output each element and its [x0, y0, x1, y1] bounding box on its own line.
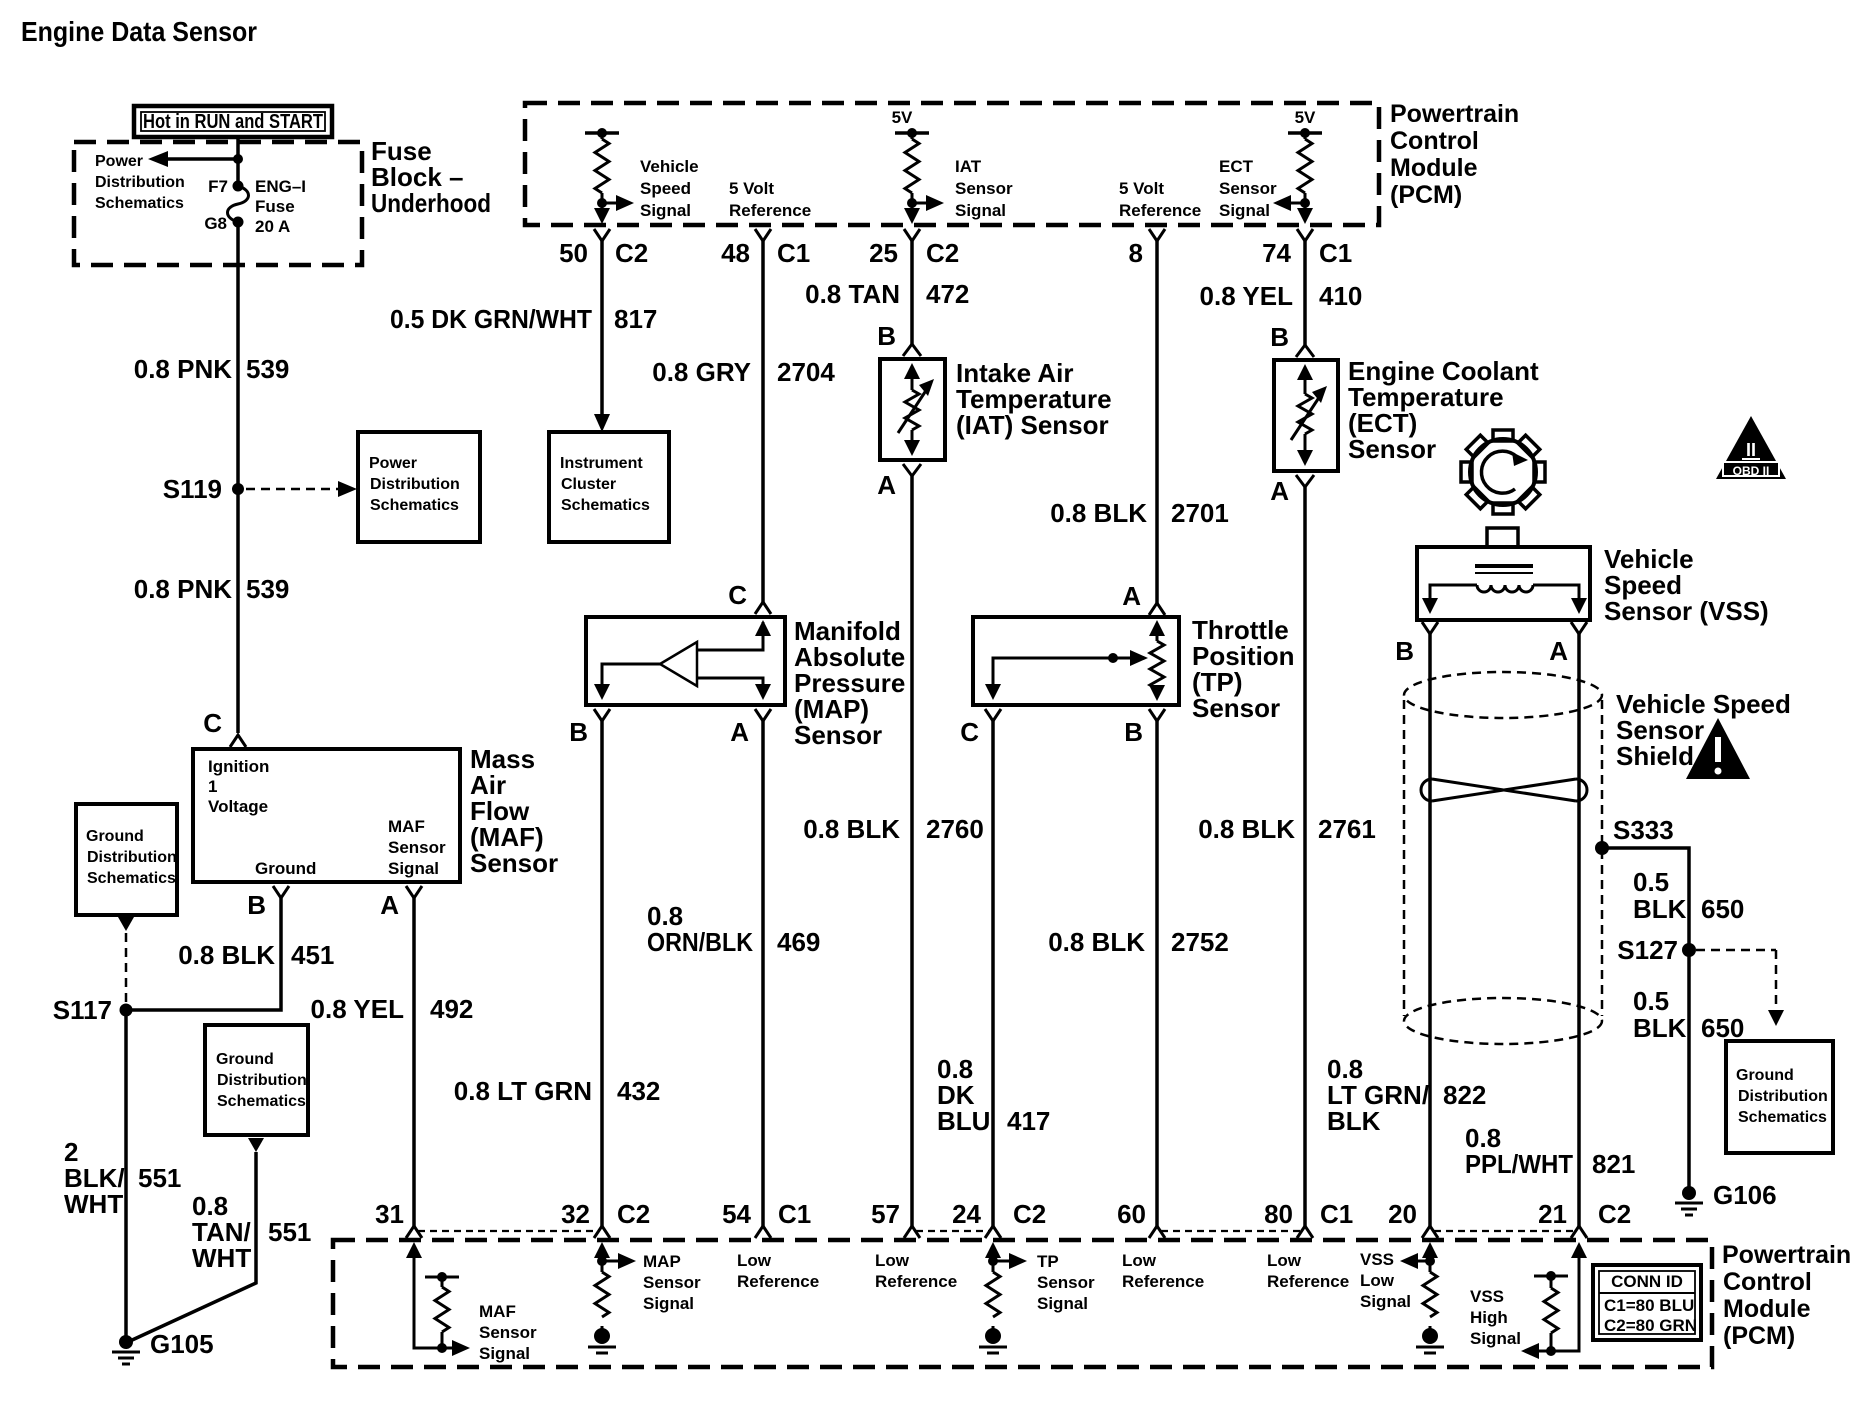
VSS stem	[1487, 528, 1518, 547]
wire 0.5 DK GRN/WHT 817 from pin 50 to instrument cluster	[594, 241, 610, 432]
svg-text:539: 539	[246, 574, 289, 604]
svg-text:OBD II: OBD II	[1733, 464, 1770, 478]
wire 0.8 YEL 492 from MAF pin A to pin 31	[412, 898, 416, 1226]
ground G105	[112, 1329, 214, 1364]
svg-text:A: A	[877, 470, 896, 500]
svg-text:5V: 5V	[1295, 108, 1316, 127]
node G8 fuse terminal	[233, 217, 244, 228]
wire MAP sensor signal inside PCM (pin 32)	[594, 1242, 636, 1272]
pin C connector at TP sensor	[960, 709, 1001, 747]
box VSS Vehicle Speed Sensor	[1417, 547, 1590, 620]
svg-text:A: A	[1549, 636, 1568, 666]
PCM top dashed box Powertrain Control Module	[525, 103, 1379, 225]
pin 48 C1 connector	[721, 229, 810, 268]
pin B connector at VSS	[1395, 622, 1438, 666]
pin A connector at MAF sensor	[380, 886, 422, 920]
svg-text:B: B	[1270, 322, 1289, 352]
resistor MAP sensor signal load with ground (PCM internal)	[588, 1272, 616, 1353]
node splice S119	[232, 483, 244, 495]
svg-text:A: A	[1122, 581, 1141, 611]
svg-text:817: 817	[614, 304, 657, 334]
wire low reference from IAT pin A to pin 57	[910, 476, 914, 1226]
pin 60 connector	[1117, 1199, 1165, 1238]
svg-text:822: 822	[1443, 1080, 1486, 1110]
reluctor gear icon above VSS	[1461, 430, 1545, 514]
svg-text:472: 472	[926, 279, 969, 309]
PCM bottom dashed box Powertrain Control Module	[333, 1240, 1712, 1367]
pin 21 C2 connector	[1538, 1199, 1631, 1238]
svg-text:0.5 DK GRN/WHT: 0.5 DK GRN/WHT	[390, 304, 592, 334]
node F7 fuse terminal	[233, 181, 244, 192]
box TP sensor Throttle Position	[973, 617, 1179, 705]
svg-text:0.8 BLK: 0.8 BLK	[1198, 814, 1295, 844]
svg-text:25: 25	[869, 238, 898, 268]
svg-text:50: 50	[559, 238, 588, 268]
wire 0.5 BLK 650 from S127 to G106	[1687, 950, 1691, 1193]
pin B connector at IAT sensor	[877, 321, 921, 356]
svg-text:ORN/BLK: ORN/BLK	[647, 927, 753, 957]
wire dashed reference from S119 to Power Distribution Schematics box	[246, 481, 357, 497]
inductor pickup coil inside VSS	[1422, 566, 1587, 614]
svg-text:20: 20	[1388, 1199, 1417, 1229]
box IAT sensor Intake Air Temperature	[880, 359, 945, 460]
wire 0.8 TAN 472 from pin 25 to IAT pin B	[910, 241, 914, 344]
box Instrument Cluster Schematics	[549, 432, 669, 542]
svg-text:A: A	[1270, 476, 1289, 506]
svg-text:G8: G8	[204, 214, 227, 233]
node junction at power distribution tap	[233, 154, 243, 164]
svg-text:469: 469	[777, 927, 820, 957]
wire arrow right vehicle speed signal	[602, 195, 634, 211]
svg-text:B: B	[569, 717, 588, 747]
pin A connector at MAP sensor	[730, 709, 771, 747]
svg-text:410: 410	[1319, 281, 1362, 311]
pin 54 C1 connector	[722, 1199, 811, 1238]
resistor IAT sensor signal pull-up (PCM internal)	[895, 128, 929, 215]
svg-text:Hot in RUN and START: Hot in RUN and START	[143, 111, 323, 133]
pin B connector at MAP sensor	[569, 709, 610, 747]
svg-text:C2: C2	[617, 1199, 650, 1229]
svg-text:0.8 BLK: 0.8 BLK	[178, 940, 275, 970]
pin C connector at MAF sensor	[203, 708, 246, 747]
fuse block dashed box Fuse Block - Underhood	[74, 142, 362, 265]
wire 0.8 BLK 2701 from pin 8 to TP pin A	[1155, 241, 1159, 603]
svg-text:5V: 5V	[892, 108, 913, 127]
svg-text:C1: C1	[778, 1199, 811, 1229]
pin 32 C2 connector	[561, 1199, 650, 1238]
wire 0.8 PNK 539 from fuse to S119	[236, 222, 240, 489]
svg-text:C2: C2	[1598, 1199, 1631, 1229]
svg-text:Engine Data Sensor: Engine Data Sensor	[21, 16, 257, 47]
node splice S333 on shield drain	[1595, 841, 1609, 855]
svg-text:C1: C1	[1319, 238, 1352, 268]
svg-text:2752: 2752	[1171, 927, 1229, 957]
wire 0.8 PPL/WHT 821 from VSS pin A to pin 21	[1577, 634, 1581, 1226]
svg-text:0.8 LT GRN: 0.8 LT GRN	[454, 1076, 592, 1106]
wire MAF sensor signal inside PCM (pin 31)	[406, 1242, 470, 1356]
svg-text:B: B	[247, 890, 266, 920]
wire low reference from ECT pin A to pin 80	[1303, 487, 1307, 1226]
pin 8 connector	[1129, 229, 1165, 268]
wire dashed from S127 to Ground Distribution Schematics	[1696, 950, 1784, 1026]
svg-text:B: B	[1124, 717, 1143, 747]
resistor VSS low signal load with ground (PCM internal)	[1416, 1272, 1444, 1353]
svg-text:821: 821	[1592, 1149, 1635, 1179]
svg-text:80: 80	[1264, 1199, 1293, 1229]
svg-text:S119: S119	[163, 474, 222, 504]
svg-text:B: B	[1395, 636, 1414, 666]
svg-text:48: 48	[721, 238, 750, 268]
svg-text:57: 57	[871, 1199, 900, 1229]
connector face dashed line 20-21	[1434, 1230, 1575, 1232]
svg-text:0.8 YEL: 0.8 YEL	[311, 994, 405, 1024]
wire arrow right IAT sensor signal	[912, 195, 944, 211]
wire hot feed into fuse box	[236, 137, 240, 186]
wire 0.8 BLK 2752 from TP pin B to pin 60	[1155, 721, 1159, 1226]
svg-text:A: A	[380, 890, 399, 920]
box Ground Distribution Schematics (right)	[1726, 1041, 1833, 1153]
svg-text:VehicleSpeedSignal: VehicleSpeedSignal	[640, 157, 699, 220]
wire 0.8 GRY 2704 from pin 48 to MAP pin C	[761, 241, 765, 602]
pin 20 connector	[1388, 1199, 1438, 1238]
warning triangle with exclamation	[1686, 718, 1750, 779]
svg-text:2704: 2704	[777, 357, 835, 387]
svg-text:24: 24	[952, 1199, 981, 1229]
svg-text:74: 74	[1262, 238, 1291, 268]
wire VSS low signal inside PCM (pin 20)	[1400, 1242, 1438, 1272]
wire VSS high signal inside PCM (pin 21)	[1521, 1242, 1587, 1359]
svg-text:C1: C1	[1320, 1199, 1353, 1229]
svg-text:0.8 BLK: 0.8 BLK	[803, 814, 900, 844]
box Power Distribution Schematics	[358, 432, 480, 542]
svg-text:21: 21	[1538, 1199, 1567, 1229]
svg-text:0.8 GRY: 0.8 GRY	[652, 357, 751, 387]
svg-text:31: 31	[375, 1199, 404, 1229]
svg-text:54: 54	[722, 1199, 751, 1229]
svg-text:B: B	[877, 321, 896, 351]
svg-text:0.8 TAN: 0.8 TAN	[805, 279, 900, 309]
svg-text:C: C	[728, 580, 747, 610]
pin B connector at ECT sensor	[1270, 322, 1314, 357]
svg-text:0.8 PNK: 0.8 PNK	[134, 354, 232, 384]
svg-text:S333: S333	[1613, 815, 1674, 845]
svg-text:0.8 PNK: 0.8 PNK	[134, 574, 232, 604]
svg-text:C2: C2	[1013, 1199, 1046, 1229]
connector face dashed line 31-32	[418, 1230, 598, 1232]
svg-text:C1: C1	[777, 238, 810, 268]
svg-text:C2=80 GRN: C2=80 GRN	[1604, 1316, 1697, 1335]
wire arrow down to pin 25	[904, 208, 920, 224]
svg-text:C2: C2	[926, 238, 959, 268]
node junction IAT sensor signal	[907, 198, 917, 208]
pin 57 connector	[871, 1199, 920, 1238]
pin A connector at ECT sensor	[1270, 475, 1314, 506]
wire 0.8 YEL 410 from pin 74 to ECT pin B	[1303, 241, 1307, 345]
wire arrow left ECT sensor signal	[1273, 195, 1305, 211]
wire 0.8 BLK 451 from MAF pin B to S117	[132, 898, 281, 1010]
pin A connector at IAT sensor	[877, 464, 921, 500]
wire 0.5 BLK 650 from S333 to S127	[1602, 848, 1689, 950]
connector face dashed line 57-24	[916, 1230, 989, 1232]
CONN ID table	[1593, 1265, 1701, 1340]
svg-text:539: 539	[246, 354, 289, 384]
pin B connector at MAF sensor	[247, 886, 289, 920]
svg-text:417: 417	[1007, 1106, 1050, 1136]
svg-text:F7: F7	[208, 177, 228, 196]
svg-text:S127: S127	[1617, 935, 1678, 965]
resistor vehicle speed signal pull-up (PCM internal)	[585, 128, 619, 215]
svg-text:CONN ID: CONN ID	[1611, 1272, 1683, 1291]
svg-text:2701: 2701	[1171, 498, 1229, 528]
label box Hot in RUN and START	[134, 106, 332, 137]
wire 0.8 LT GRN/BLK 822 from VSS pin B to pin 20	[1428, 634, 1432, 1226]
wire TP sensor signal inside PCM (pin 24)	[985, 1242, 1027, 1272]
pin C connector at MAP sensor	[728, 580, 771, 614]
svg-text:32: 32	[561, 1199, 590, 1229]
svg-text:650: 650	[1701, 1013, 1744, 1043]
resistor ECT sensor signal pull-up (PCM internal)	[1288, 128, 1322, 215]
pin A connector at TP sensor	[1122, 581, 1165, 615]
wire 0.8 LT GRN 432 from MAP pin B to pin 32	[600, 721, 604, 1226]
svg-text:G106: G106	[1713, 1180, 1777, 1210]
node junction vehicle speed signal	[597, 198, 607, 208]
resistor VSS high signal load (PCM internal)	[1534, 1271, 1568, 1351]
pin B connector at TP sensor	[1124, 709, 1165, 747]
svg-text:551: 551	[268, 1217, 311, 1247]
svg-text:C2: C2	[615, 238, 648, 268]
pin 24 C2 connector	[952, 1199, 1046, 1238]
svg-text:C1=80 BLU: C1=80 BLU	[1604, 1296, 1694, 1315]
wire arrow down to pin 74	[1297, 208, 1313, 224]
svg-text:C: C	[960, 717, 979, 747]
box MAP sensor Manifold Absolute Pressure	[586, 617, 785, 705]
svg-text:ThrottlePosition(TP)Sensor: ThrottlePosition(TP)Sensor	[1192, 615, 1295, 723]
svg-text:C: C	[203, 708, 222, 738]
OBD II triangle badge	[1716, 416, 1786, 479]
svg-text:II: II	[1746, 440, 1756, 460]
resistor TP sensor signal load with ground (PCM internal)	[979, 1272, 1007, 1353]
fuse F7 ENG-I 20A element	[228, 186, 249, 222]
svg-text:S117: S117	[53, 995, 112, 1025]
pin 80 C1 connector	[1264, 1199, 1353, 1238]
svg-text:492: 492	[430, 994, 473, 1024]
svg-text:2761: 2761	[1318, 814, 1376, 844]
svg-text:Ground: Ground	[255, 859, 316, 878]
resistor MAF sensor signal load (PCM internal)	[425, 1272, 459, 1348]
wire 0.8 ORN/BLK 469 from MAP pin A to pin 54	[761, 721, 765, 1226]
wire 2 BLK/WHT 551 from S117 to G105	[124, 1010, 128, 1340]
wire 0.8 TAN/WHT 551 from Ground Distribution to G105	[130, 1138, 264, 1341]
pin 25 C2 connector	[869, 229, 959, 268]
svg-text:451: 451	[291, 940, 334, 970]
shield dashed cylinder Vehicle Speed Sensor Shield	[1404, 672, 1602, 1044]
pin A connector at VSS	[1549, 622, 1587, 666]
box Ground Distribution Schematics (left)	[76, 804, 177, 915]
pin 31 connector	[375, 1199, 422, 1238]
svg-text:60: 60	[1117, 1199, 1146, 1229]
box ECT sensor Engine Coolant Temperature	[1274, 360, 1338, 471]
thermistor element inside IAT sensor	[898, 363, 934, 456]
wire arrow to Power Distribution Schematics	[148, 151, 238, 167]
svg-text:0.8 BLK: 0.8 BLK	[1048, 927, 1145, 957]
svg-text:551: 551	[138, 1163, 181, 1193]
wire arrow down to pin 50	[594, 208, 610, 224]
svg-text:0.8 BLK: 0.8 BLK	[1050, 498, 1147, 528]
twisted pair symbol inside shield	[1421, 779, 1587, 801]
node junction ECT sensor signal	[1300, 198, 1310, 208]
wire dashed from Ground Distribution Schematics to S117	[118, 917, 134, 1004]
svg-text:G105: G105	[150, 1329, 214, 1359]
svg-text:2760: 2760	[926, 814, 984, 844]
svg-text:0.8 YEL: 0.8 YEL	[1200, 281, 1294, 311]
connector face dashed line 60-80	[1161, 1230, 1301, 1232]
box Ground Distribution Schematics (second)	[205, 1025, 308, 1135]
op-amp element inside MAP sensor	[594, 620, 771, 700]
svg-text:432: 432	[617, 1076, 660, 1106]
svg-text:650: 650	[1701, 894, 1744, 924]
pin 50 C2 connector	[559, 229, 648, 268]
node splice S127	[1682, 943, 1696, 957]
ground G106	[1675, 1180, 1777, 1215]
wire 0.8 DK BLU 417 from TP pin C to pin 24	[991, 721, 995, 1226]
svg-text:A: A	[730, 717, 749, 747]
node splice S117	[120, 1004, 133, 1017]
thermistor element inside ECT sensor	[1291, 364, 1327, 466]
svg-text:8: 8	[1129, 238, 1143, 268]
box MAF sensor Mass Air Flow	[193, 749, 460, 882]
wire 0.8 PNK 539 from S119 to MAF pin C	[236, 489, 240, 733]
pin 74 C1 connector	[1262, 229, 1352, 268]
potentiometer element inside TP sensor	[985, 620, 1165, 701]
